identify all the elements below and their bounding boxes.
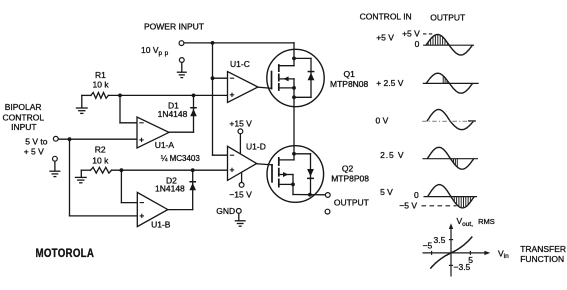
svg-text:5 V to: 5 V to xyxy=(25,136,47,146)
svg-text:U1-B: U1-B xyxy=(151,220,171,230)
svg-text:¼ MC3403: ¼ MC3403 xyxy=(161,154,201,163)
svg-text:3.5: 3.5 xyxy=(434,235,446,245)
svg-text:10 k: 10 k xyxy=(93,80,110,90)
svg-text:0: 0 xyxy=(414,190,419,200)
svg-text:TRANSFER: TRANSFER xyxy=(520,244,566,254)
svg-text:MOTOROLA: MOTOROLA xyxy=(36,247,95,260)
svg-text:U1-A: U1-A xyxy=(155,140,175,150)
svg-text:OUTPUT: OUTPUT xyxy=(334,197,369,207)
svg-text:+15 V: +15 V xyxy=(229,119,252,129)
svg-text:+ 2.5 V: + 2.5 V xyxy=(376,78,404,88)
svg-text:5 V: 5 V xyxy=(380,187,393,197)
svg-text:BIPOLAR: BIPOLAR xyxy=(5,102,42,112)
svg-text:0 V: 0 V xyxy=(376,116,389,126)
svg-text:GND: GND xyxy=(216,206,235,216)
svg-text:R2: R2 xyxy=(95,144,106,154)
svg-text:−3.5: −3.5 xyxy=(454,262,471,272)
svg-text:−15 V: −15 V xyxy=(229,190,252,200)
svg-text:CONTROL IN: CONTROL IN xyxy=(360,12,412,22)
svg-text:+5 V: +5 V xyxy=(376,32,394,42)
svg-text:CONTROL: CONTROL xyxy=(3,112,45,122)
svg-text:Q1: Q1 xyxy=(344,69,356,79)
svg-text:Q2: Q2 xyxy=(342,163,354,173)
svg-text:INPUT: INPUT xyxy=(11,122,36,132)
svg-text:10 k: 10 k xyxy=(92,156,109,166)
svg-text:−5: −5 xyxy=(423,241,433,251)
svg-text:−5 V: −5 V xyxy=(399,201,417,211)
svg-text:FUNCTION: FUNCTION xyxy=(520,254,564,264)
svg-text:0: 0 xyxy=(415,39,420,49)
svg-text:OUTPUT: OUTPUT xyxy=(430,12,465,22)
svg-text:+ 5 V: + 5 V xyxy=(24,146,44,156)
svg-text:MTP8N08: MTP8N08 xyxy=(330,79,369,89)
svg-text:MTP8P08: MTP8P08 xyxy=(331,174,369,184)
svg-text:R1: R1 xyxy=(95,70,106,80)
svg-text:1N4148: 1N4148 xyxy=(158,109,188,119)
svg-text:+5 V: +5 V xyxy=(402,28,420,38)
svg-text:U1-D: U1-D xyxy=(246,142,266,152)
svg-text:2.5 V: 2.5 V xyxy=(380,150,404,160)
svg-text:1N4148: 1N4148 xyxy=(155,184,185,194)
svg-text:U1-C: U1-C xyxy=(230,59,250,69)
svg-text:POWER INPUT: POWER INPUT xyxy=(144,22,204,32)
